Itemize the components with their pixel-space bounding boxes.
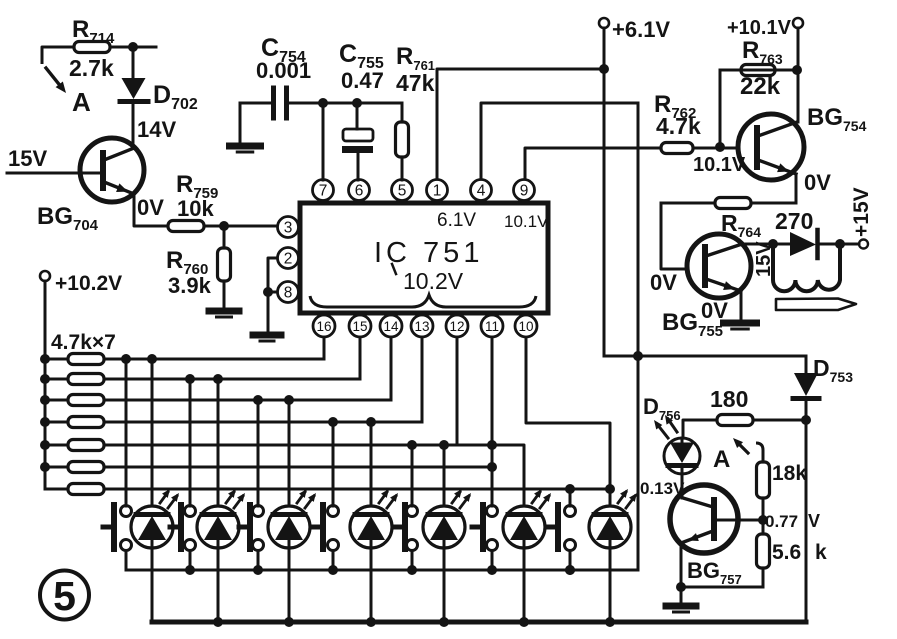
jog wire to LED6 feed bbox=[492, 445, 524, 506]
LED VD1 bbox=[131, 506, 173, 548]
resistor 4.7k row 5 bbox=[45, 444, 68, 447]
resistor 4.7k row 1 bbox=[45, 358, 68, 361]
resistor 4.7k row 2 bbox=[45, 378, 68, 381]
svg-text:15: 15 bbox=[352, 319, 367, 334]
wire junction to R761 bbox=[357, 102, 402, 105]
svg-text:4: 4 bbox=[477, 183, 486, 200]
svg-text:2.7k: 2.7k bbox=[69, 55, 114, 81]
junction bus row 1 bbox=[40, 354, 50, 364]
wire 5.6k bottom bbox=[762, 568, 765, 587]
wire LED1 cathode to bottom bus bbox=[151, 546, 154, 622]
resistor 4.7k row 4 bbox=[45, 421, 68, 424]
svg-text:2: 2 bbox=[284, 251, 293, 268]
wire R759 to pin3 bbox=[204, 225, 277, 228]
LED VD2 bbox=[197, 506, 239, 548]
wire LED3 cathode to bottom bus bbox=[288, 546, 291, 622]
svg-text:IC 751: IC 751 bbox=[374, 237, 483, 269]
junction contact7/switch bus bbox=[565, 565, 575, 575]
wire LED1 feed bbox=[151, 359, 154, 506]
wire row 4 bbox=[104, 421, 422, 424]
pin 2 bbox=[278, 248, 299, 269]
emitter wire BG757 bbox=[680, 543, 683, 587]
collector wire BG755 bbox=[742, 243, 773, 246]
junction contact2 bbox=[185, 374, 195, 384]
wire to D753 bbox=[638, 355, 806, 358]
wire contact4 to switch bus bbox=[332, 551, 335, 571]
wire row 5 bbox=[104, 444, 493, 447]
svg-text:5: 5 bbox=[398, 183, 407, 200]
svg-text:0V: 0V bbox=[804, 170, 831, 195]
diode D702 bbox=[132, 47, 135, 78]
transistor BG755 bbox=[687, 234, 751, 298]
svg-text:16: 16 bbox=[316, 319, 331, 334]
transistor BG704 bbox=[80, 138, 144, 202]
IC U751 body bbox=[300, 203, 548, 313]
wire pin7 bbox=[322, 103, 325, 180]
base wire BG755 bbox=[661, 203, 687, 269]
svg-text:A: A bbox=[713, 446, 730, 473]
wire LED5 feed bbox=[443, 445, 446, 506]
svg-text:0.001: 0.001 bbox=[256, 58, 311, 83]
light arrows LED4 bbox=[379, 492, 387, 503]
junction LED4 bbox=[366, 417, 376, 427]
junction bottom bus 2 bbox=[213, 617, 223, 627]
svg-text:270: 270 bbox=[775, 208, 813, 234]
+6.1V rail vertical bbox=[603, 28, 606, 356]
light arrows D756 bbox=[657, 424, 668, 438]
diode D753 bbox=[805, 356, 808, 373]
junction bottom bus 5 bbox=[439, 617, 449, 627]
ground BG757 bbox=[680, 587, 683, 603]
wire contact7 feed bbox=[569, 489, 572, 506]
junction emitter BG757 bbox=[676, 582, 686, 592]
wire pin12 to row5 bbox=[456, 337, 459, 445]
junction coil left bbox=[768, 239, 778, 249]
wire +6.1V jog to D753 line bbox=[604, 355, 638, 358]
switch S3 lower contact bbox=[253, 540, 264, 551]
svg-text:14: 14 bbox=[383, 319, 399, 334]
svg-text:14V: 14V bbox=[137, 117, 176, 142]
junction bus row 6 bbox=[40, 462, 50, 472]
IC751 bottom brace bbox=[310, 295, 536, 307]
wire contact3 feed bbox=[257, 400, 260, 506]
switch S3 actuator bar bbox=[247, 505, 253, 549]
pin4 rail vertical to switch bus bbox=[637, 103, 640, 570]
svg-text:V: V bbox=[808, 511, 820, 531]
emitter wire BG704 0V bbox=[134, 194, 168, 226]
junction LED1 bbox=[147, 354, 157, 364]
resistor R762 4.7k bbox=[661, 143, 693, 154]
ground BG755 bbox=[724, 320, 757, 327]
junction pin8 wire bbox=[263, 287, 273, 297]
photodiode D756 bbox=[664, 438, 700, 474]
resistor 4.7k row 7 bbox=[45, 488, 68, 491]
transistor BG757 bbox=[670, 485, 738, 553]
svg-text:10k: 10k bbox=[177, 196, 214, 221]
LED VD3 bbox=[268, 506, 310, 548]
svg-text:+10.2V: +10.2V bbox=[55, 272, 122, 295]
wire pin10 jog to LED7 bbox=[526, 337, 610, 506]
svg-text:12: 12 bbox=[449, 319, 464, 334]
junction contact1 bbox=[121, 354, 131, 364]
pin 11 (bottom) bbox=[481, 315, 503, 337]
junction contact5 bbox=[407, 440, 417, 450]
wire emitter to 5.6k bbox=[681, 586, 763, 589]
switch S5 lower contact bbox=[407, 540, 418, 551]
wire pin13 to row4 bbox=[421, 337, 424, 422]
switch S2 upper contact bbox=[185, 506, 196, 517]
ground under R760 bbox=[223, 281, 226, 308]
pin 6 (top) bbox=[349, 180, 370, 201]
junction LED3 bbox=[284, 395, 294, 405]
svg-text:4.7k: 4.7k bbox=[656, 113, 701, 139]
svg-text:18k: 18k bbox=[772, 462, 807, 485]
transistor BG754 bbox=[738, 114, 804, 180]
diode D751 (rectifier by coil) bbox=[773, 243, 790, 246]
right rail to bottom bus bbox=[805, 420, 808, 622]
svg-text:3: 3 bbox=[284, 220, 293, 237]
wire LED6 cathode to bottom bus bbox=[523, 546, 526, 622]
wire pin2-pin8 bbox=[268, 258, 277, 292]
switch S4 actuator bar bbox=[320, 505, 326, 549]
svg-text:5: 5 bbox=[53, 573, 76, 619]
pin 5 (top) bbox=[392, 180, 413, 201]
pin 7 (top) bbox=[313, 180, 334, 201]
wire contact5 feed bbox=[411, 445, 414, 506]
resistor 4.7k row 3 bbox=[45, 399, 68, 402]
junction D753/180 bbox=[801, 415, 811, 425]
junction bus row 5 bbox=[40, 440, 50, 450]
svg-text:+6.1V: +6.1V bbox=[612, 17, 670, 42]
light arrows LED1 bbox=[160, 492, 168, 503]
junction 0.77V bbox=[758, 515, 768, 525]
junction C754/pin7 bbox=[318, 98, 328, 108]
pin 16 (bottom) bbox=[313, 315, 335, 337]
figure number 5 bbox=[40, 571, 89, 620]
junction jog/pin4 rail bbox=[633, 351, 643, 361]
junction bottom bus 3 bbox=[284, 617, 294, 627]
switch S5 upper contact bbox=[407, 506, 418, 517]
switch S7 upper contact bbox=[565, 506, 576, 517]
svg-text:6: 6 bbox=[355, 183, 364, 200]
switch S1 actuator bar bbox=[111, 505, 117, 549]
switch S6 upper contact bbox=[487, 506, 498, 517]
junction R759/R760 bbox=[219, 221, 229, 231]
svg-text:+10.1V: +10.1V bbox=[727, 17, 792, 39]
junction bottom bus 4 bbox=[366, 617, 376, 627]
ground under pins 2/8 bbox=[267, 292, 270, 332]
junction bus row 2 bbox=[40, 374, 50, 384]
junction base BG754 10.1V bbox=[715, 142, 725, 152]
junction bus row 4 bbox=[40, 417, 50, 427]
wire LED2 feed bbox=[217, 379, 220, 506]
junction R763/+10.1V bbox=[792, 65, 802, 75]
pin 1 (top) bbox=[427, 180, 448, 201]
svg-text:10.1V: 10.1V bbox=[504, 212, 549, 231]
wire pin9 to R762 bbox=[525, 148, 661, 180]
wire pin11 down to key6 contact bbox=[491, 337, 494, 506]
svg-text:0V: 0V bbox=[650, 270, 677, 295]
base wire BG757 to divider bbox=[716, 519, 764, 522]
svg-text:A: A bbox=[72, 87, 91, 117]
svg-text:4.7k×7: 4.7k×7 bbox=[51, 331, 116, 354]
wire row 2 bbox=[104, 378, 360, 381]
pin 3 bbox=[278, 217, 299, 238]
resistor R763 22k bbox=[741, 69, 797, 72]
junction bottom bus 6 bbox=[519, 617, 529, 627]
wire pin14 to row3 bbox=[390, 337, 393, 400]
wire contact7 to switch bus bbox=[569, 551, 572, 571]
junction switch bus 5 bbox=[407, 565, 417, 575]
switch S1 lower contact bbox=[121, 540, 132, 551]
emitter wire BG754 0V bbox=[795, 174, 798, 203]
wire 18k top hook bbox=[756, 443, 763, 462]
junction LED2 bbox=[213, 374, 223, 384]
resistor 18k bbox=[757, 462, 770, 498]
switch S6 lower contact bbox=[487, 540, 498, 551]
pin 8 bbox=[278, 282, 299, 303]
svg-text:0V: 0V bbox=[137, 195, 164, 220]
junction bottom bus 7 bbox=[605, 617, 615, 627]
svg-text:0.47: 0.47 bbox=[341, 68, 384, 93]
junction R714/D702 bbox=[128, 42, 138, 52]
wire LED3 feed bbox=[288, 400, 291, 506]
wire pin15 to row2 bbox=[359, 337, 362, 379]
svg-text:10.2V: 10.2V bbox=[403, 268, 464, 294]
wire to +15V terminal bbox=[840, 243, 859, 246]
switch S4 lower contact bbox=[328, 540, 339, 551]
capacitor C754 0.001 bbox=[240, 102, 271, 105]
svg-text:10: 10 bbox=[518, 319, 533, 334]
wire LED4 feed bbox=[370, 422, 373, 506]
wire row 6 bbox=[104, 466, 493, 469]
junction contact4 bbox=[328, 417, 338, 427]
wire contact1 feed bbox=[125, 359, 128, 506]
pin 13 (bottom) bbox=[411, 315, 433, 337]
node A pointer (top-left) bbox=[42, 47, 74, 64]
LED VD4 bbox=[350, 506, 392, 548]
pin 10 (bottom) bbox=[515, 315, 537, 337]
wire contact6 to switch bus bbox=[491, 551, 494, 571]
svg-text:180: 180 bbox=[710, 386, 748, 412]
wire 180 to D756 bbox=[683, 420, 717, 438]
wire LED4 cathode to bottom bus bbox=[370, 546, 373, 622]
wire contact4 feed bbox=[332, 422, 335, 506]
svg-text:7: 7 bbox=[319, 183, 328, 200]
switch S5 actuator bar bbox=[402, 505, 408, 549]
LED VD7 bbox=[589, 506, 631, 548]
wire junction to C755 bbox=[323, 102, 357, 105]
switch S2 lower contact bbox=[185, 540, 196, 551]
resistor R714 bbox=[74, 42, 110, 53]
switch S7 actuator bar bbox=[555, 505, 561, 549]
junction row7/LED7 feed bbox=[605, 484, 615, 494]
LED VD5 bbox=[423, 506, 465, 548]
junction bus row 3 bbox=[40, 395, 50, 405]
resistor R764 270 bbox=[751, 202, 796, 205]
light arrows LED3 bbox=[297, 492, 305, 503]
svg-text:11: 11 bbox=[485, 319, 499, 334]
+10.1V rail to BG754 collector bbox=[797, 28, 800, 122]
svg-text:3.9k: 3.9k bbox=[168, 273, 212, 298]
svg-text:0.77: 0.77 bbox=[765, 512, 798, 531]
svg-text:+15V: +15V bbox=[850, 187, 873, 237]
svg-text:8: 8 bbox=[284, 285, 293, 302]
wire row 3 bbox=[104, 399, 391, 402]
svg-text:9: 9 bbox=[520, 183, 529, 200]
svg-text:1: 1 bbox=[433, 183, 442, 200]
wire R714 to node bbox=[110, 46, 156, 49]
resistor R? 180 bbox=[753, 419, 806, 422]
svg-text:6.1V: 6.1V bbox=[437, 210, 476, 231]
+15V terminal bbox=[859, 240, 868, 249]
junction row7/contact7 bbox=[565, 484, 575, 494]
junction switch bus 2 bbox=[185, 565, 195, 575]
relay coil bbox=[773, 244, 840, 291]
light arrows LED5 bbox=[452, 492, 460, 503]
svg-text:13: 13 bbox=[414, 319, 429, 334]
base wire 15V to BG704 bbox=[7, 172, 103, 175]
junction coil right bbox=[835, 239, 845, 249]
test point A (right) bbox=[737, 442, 748, 453]
junction switch bus 3 bbox=[253, 565, 263, 575]
junction pin1/+6.1V bbox=[599, 64, 609, 74]
wire contact3 to switch bus bbox=[257, 551, 260, 571]
wire contact1 to switch bus bbox=[125, 551, 128, 571]
light arrows LED7 bbox=[618, 492, 626, 503]
junction pin11/row5 jog bbox=[487, 440, 497, 450]
resistor R760 3.9k bbox=[223, 226, 226, 248]
svg-text:47k: 47k bbox=[396, 70, 435, 96]
pin 4 (top) bbox=[471, 180, 492, 201]
svg-text:22k: 22k bbox=[740, 73, 781, 100]
junction switch bus 7 bbox=[565, 565, 575, 575]
light arrows LED2 bbox=[226, 492, 234, 503]
pin 14 (bottom) bbox=[380, 315, 402, 337]
switch S4 upper contact bbox=[328, 506, 339, 517]
pin 9 (top) bbox=[514, 180, 535, 201]
LED VD6 bbox=[503, 506, 545, 548]
wire pin16 to row1 bbox=[323, 337, 326, 359]
wire row 1 bbox=[104, 358, 324, 361]
+10.1V terminal bbox=[793, 18, 803, 28]
wire LED2 cathode to bottom bus bbox=[217, 546, 220, 622]
junction pin11/row6 bbox=[487, 462, 497, 472]
resistor 4.7k row 6 bbox=[45, 466, 68, 469]
svg-text:k: k bbox=[815, 541, 827, 564]
ground for C754 bbox=[239, 103, 242, 142]
svg-text:15V: 15V bbox=[8, 146, 47, 171]
wire contact2 to switch bus bbox=[189, 551, 192, 571]
wire row 7 bbox=[104, 488, 612, 491]
junction switch bus 4 bbox=[328, 565, 338, 575]
pin 15 (bottom) bbox=[349, 315, 371, 337]
wire pin4 horizontal bbox=[481, 103, 638, 180]
+10.2V bus vertical bbox=[44, 281, 47, 489]
capacitor C755 0.47 (electrolytic) bbox=[356, 103, 359, 129]
wire LED5 cathode to bottom bus bbox=[443, 546, 446, 622]
wire pin1 to +6.1V rail bbox=[437, 69, 603, 180]
+10.2V terminal bbox=[40, 271, 50, 281]
resistor R761 47k bbox=[401, 103, 404, 122]
wire LED7 cathode to bottom bus bbox=[609, 546, 612, 622]
junction C755 top bbox=[352, 98, 362, 108]
emitter wire BG755 to ground bbox=[740, 291, 743, 320]
plug arrow symbol bbox=[776, 299, 856, 311]
light arrows LED6 bbox=[532, 492, 540, 503]
switch S7 lower contact bbox=[565, 540, 576, 551]
switch S1 upper contact bbox=[121, 506, 132, 517]
wire 18k to junction bbox=[762, 498, 765, 534]
switch S2 actuator bar bbox=[178, 505, 184, 549]
junction contact3 bbox=[253, 395, 263, 405]
resistor 5.6k bbox=[757, 534, 770, 568]
wire contact2 feed bbox=[189, 379, 192, 506]
pin 12 (bottom) bbox=[446, 315, 468, 337]
svg-text:5.6: 5.6 bbox=[772, 541, 801, 564]
+6.1V terminal bbox=[599, 18, 609, 28]
svg-text:0V: 0V bbox=[701, 298, 728, 323]
junction switch bus 6 bbox=[487, 565, 497, 575]
resistor R759 10k bbox=[168, 221, 204, 232]
junction LED5 bbox=[439, 440, 449, 450]
switch S6 actuator bar bbox=[480, 505, 486, 549]
wire contact5 to switch bus bbox=[411, 551, 414, 571]
switch S3 upper contact bbox=[253, 506, 264, 517]
bottom cathode bus bbox=[152, 620, 806, 625]
switch common bus to +6.1V bbox=[126, 569, 638, 572]
